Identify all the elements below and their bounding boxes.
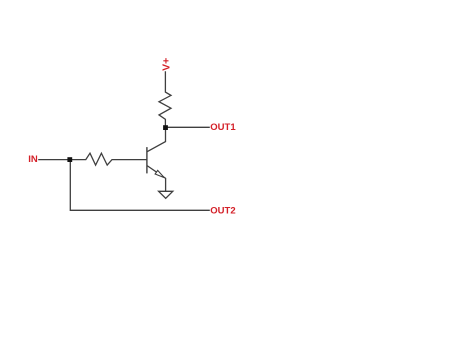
- svg-text:OUT1: OUT1: [210, 122, 236, 133]
- svg-text:IN: IN: [28, 154, 38, 165]
- svg-text:V+: V+: [160, 58, 172, 71]
- svg-text:OUT2: OUT2: [210, 206, 235, 217]
